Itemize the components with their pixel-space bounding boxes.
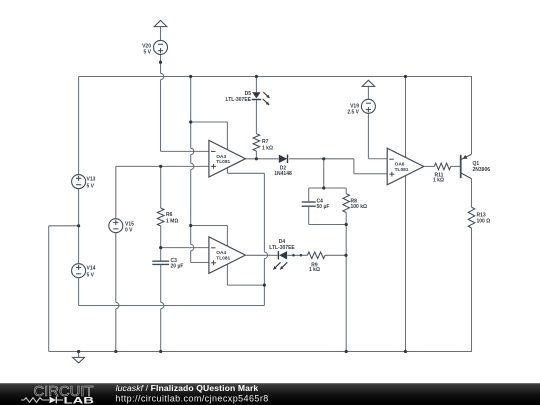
svg-text:V15: V15 [125,221,134,227]
svg-text:1N4148: 1N4148 [274,171,292,177]
svg-text:TL081: TL081 [395,167,409,173]
svg-text:LAB: LAB [64,396,95,405]
svg-text:2N3906: 2N3906 [473,167,491,173]
svg-text:V14: V14 [87,266,96,272]
svg-text:1 kΩ: 1 kΩ [262,145,273,151]
svg-text:lucaskf / FInalizado QUestion: lucaskf / FInalizado QUestion Mark [116,383,259,393]
svg-text:1 kΩ: 1 kΩ [309,267,320,273]
svg-text:R6: R6 [166,212,173,218]
svg-text:LTL-307EE: LTL-307EE [226,97,252,103]
svg-text:1 kΩ: 1 kΩ [433,177,444,183]
svg-text:OA3: OA3 [216,154,226,160]
svg-text:0 V: 0 V [125,228,133,234]
svg-text:2.5 V: 2.5 V [347,109,359,115]
svg-text:5 V: 5 V [87,184,95,190]
svg-text:LTL-307EE: LTL-307EE [269,245,295,251]
svg-text:5 V: 5 V [143,49,151,55]
svg-text:R7: R7 [262,139,269,145]
svg-text:http://circuitlab.com/cjnecxp5: http://circuitlab.com/cjnecxp5465r8 [115,393,268,403]
svg-text:V13: V13 [87,177,96,183]
svg-text:OA4: OA4 [216,250,226,256]
svg-text:5 V: 5 V [87,273,95,279]
svg-text:100 kΩ: 100 kΩ [351,204,368,210]
svg-text:20 µF: 20 µF [171,264,184,270]
svg-text:D5: D5 [245,91,252,97]
svg-text:1 MΩ: 1 MΩ [166,219,178,225]
svg-text:TL081: TL081 [216,159,230,165]
svg-text:TL081: TL081 [216,255,230,261]
svg-text:OA6: OA6 [395,162,405,168]
svg-text:100 Ω: 100 Ω [477,219,491,225]
svg-text:50 µF: 50 µF [317,204,330,210]
